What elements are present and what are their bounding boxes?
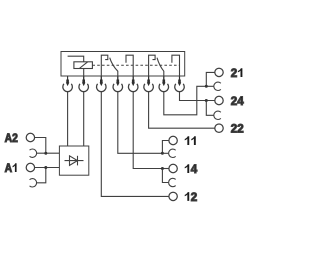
terminal A1 socket arc: [30, 179, 37, 187]
wire pin5 to terminal 14: [133, 92, 162, 169]
plug-in pin 7 (contact 2 COM): arrow and socket: [159, 77, 169, 92]
plug-in pin 1 (coil A1 side): arrow and socket: [63, 77, 73, 92]
wire pin8 to terminal 24: [180, 92, 215, 101]
junction 11: [161, 152, 164, 155]
14 stub: [162, 168, 169, 170]
wire pin3 to terminal 12: [101, 92, 169, 197]
terminal 21 socket arc: [214, 82, 221, 90]
terminal 14 socket arc: [169, 178, 176, 186]
11 wire to arc: [162, 152, 168, 154]
mechanical link (dashed): [92, 64, 179, 66]
input protection box: [59, 146, 88, 175]
terminal A2 socket arc: [30, 149, 37, 157]
svg-text:2: 2: [191, 190, 198, 204]
junction A1: [44, 166, 47, 169]
plug-in pin 2 (coil A2 side): arrow and socket: [79, 77, 89, 92]
plug-in pin 4 (contact 1 COM): arrow and socket: [113, 77, 123, 92]
wire pin2 to input box: [83, 92, 85, 146]
junction 21: [205, 85, 208, 88]
terminal 11 circle: [169, 136, 177, 144]
14 bus down to its arc: [162, 169, 168, 183]
svg-text:2: 2: [231, 66, 238, 80]
wire pin7 to terminal 21: [164, 86, 214, 115]
terminal A2 circle: [26, 133, 34, 141]
label 11: [185, 136, 196, 145]
terminal 11 socket arc: [169, 149, 176, 157]
21 stub and bus: [206, 72, 215, 86]
24 bus down to its arc: [206, 101, 214, 116]
wire pin1 to input box: [67, 92, 69, 146]
label 14: [185, 162, 198, 176]
svg-text:A: A: [5, 162, 12, 175]
terminal 14 circle: [169, 164, 177, 172]
junction A2: [44, 152, 47, 155]
terminal A1 circle: [26, 163, 34, 171]
svg-text:24: 24: [231, 94, 244, 108]
label A1: [5, 162, 17, 175]
svg-text:A2: A2: [5, 132, 18, 145]
relay box outline: [61, 52, 185, 77]
terminal 21 circle: [215, 68, 223, 76]
11 stub and bus: [162, 141, 169, 154]
contact 1 moving arm (pin 4): [110, 58, 118, 81]
terminal 24 circle: [215, 96, 223, 104]
plug-in pin 6 (contact 2 NC): arrow and socket: [144, 77, 154, 92]
terminal 24 socket arc: [214, 111, 221, 119]
svg-text:22: 22: [231, 121, 244, 135]
wire pin4 to terminal 11: [118, 92, 163, 154]
label 12: [185, 190, 198, 204]
contact 2 moving arm (pin 7): [157, 58, 164, 81]
terminal 22 circle: [215, 124, 223, 132]
plug-in pin 3 (contact 1 NC): arrow and socket: [96, 77, 106, 92]
junction 14: [161, 167, 164, 170]
wire pin6 to terminal 22: [149, 92, 215, 129]
junction 24: [205, 99, 208, 102]
label 21: [231, 66, 243, 80]
coil K1: [68, 56, 93, 80]
plug-in pin 8 (contact 2 NO): arrow and socket: [175, 77, 185, 92]
A2 wiring: [35, 138, 46, 154]
plug-in pin 5 (contact 1 NO): arrow and socket: [128, 77, 138, 92]
svg-text:4: 4: [191, 162, 198, 176]
contact 2 NC stationary (pin 6): [149, 55, 156, 80]
diode D1: [65, 156, 84, 166]
terminal 12 circle: [169, 192, 177, 200]
contact 1 NO stationary (pin 5): [126, 55, 133, 80]
A1 wiring: [35, 167, 60, 169]
contact 2 NO stationary (pin 8): [172, 55, 180, 80]
contact 1 NC stationary (pin 3): [101, 55, 108, 80]
